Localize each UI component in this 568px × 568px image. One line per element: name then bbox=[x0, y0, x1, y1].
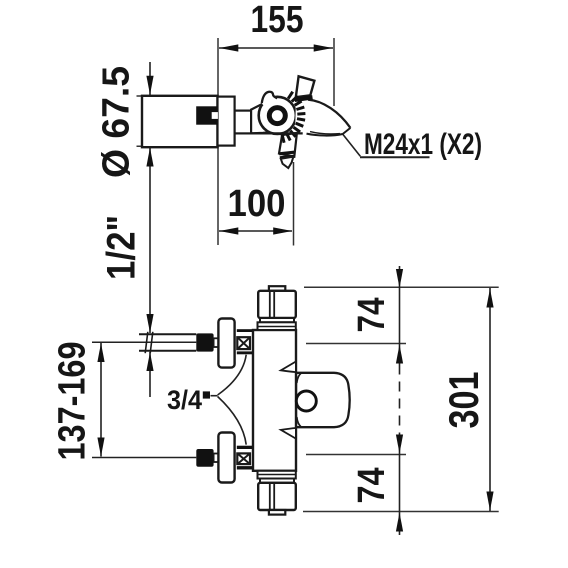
label 3/4 leader tick bbox=[211, 395, 218, 397]
upper inlet pipe bbox=[139, 333, 196, 335]
dimension 137-169 line bbox=[100, 343, 102, 457]
knurl collar ticks bbox=[282, 92, 305, 143]
lower inlet nut bbox=[196, 449, 213, 467]
upper union top bar bbox=[237, 329, 253, 332]
svg-text:Ø 67.5: Ø 67.5 bbox=[96, 66, 138, 178]
bottom knob skirt bbox=[258, 471, 296, 479]
spout top edge bbox=[308, 100, 350, 128]
upper stub base band bbox=[295, 97, 313, 100]
block ear top bbox=[281, 362, 296, 373]
hub top bump bbox=[262, 92, 277, 105]
right side extension lines bbox=[304, 286, 499, 288]
valve wedge bbox=[251, 100, 277, 134]
lower stub tube bbox=[279, 133, 297, 157]
spout block bbox=[296, 373, 350, 427]
spout inner line bbox=[310, 132, 340, 134]
svg-text:100: 100 bbox=[228, 183, 286, 225]
top knob skirt bbox=[260, 318, 294, 322]
dimension 74 (top) line bbox=[399, 266, 401, 365]
dimension 100 extension line right bbox=[293, 162, 295, 246]
dimension dia 67.5 / 1/2 inch vertical line bbox=[149, 62, 151, 333]
spout block inner arcs bbox=[297, 373, 301, 383]
label 3/4 leader curve lower bbox=[218, 397, 247, 445]
upper stub M24 outlet bbox=[296, 76, 315, 97]
dimension 100 line bbox=[219, 230, 292, 232]
top knob bump bbox=[269, 286, 285, 291]
lower stub knurl band bbox=[279, 152, 294, 154]
dimension dia 67.5 extension ticks bbox=[137, 95, 219, 97]
label M24x1 underline bbox=[360, 156, 430, 158]
svg-text:74: 74 bbox=[351, 468, 393, 504]
lower inlet center line / 137-169 bottom extension bbox=[92, 457, 196, 459]
top knob bbox=[258, 291, 296, 318]
lower union top bar bbox=[237, 446, 253, 449]
escutcheon flange rect A bbox=[142, 96, 218, 147]
lower union bottom bar bbox=[237, 466, 253, 469]
dimension 74 (bottom) line bbox=[399, 434, 401, 536]
neck rect bbox=[235, 111, 252, 134]
upper union bottom bar bbox=[237, 351, 253, 354]
mounting screw dark square bbox=[196, 106, 217, 124]
upper inlet stub bbox=[214, 338, 219, 347]
dimension 155 extension line right bbox=[333, 38, 335, 106]
bottom knob bump bbox=[269, 510, 285, 515]
lower union crossed box bbox=[237, 453, 250, 464]
svg-text:74: 74 bbox=[351, 298, 393, 333]
outlet circle bbox=[296, 391, 316, 411]
spout bottom edge bbox=[307, 128, 351, 136]
svg-text:301: 301 bbox=[440, 372, 487, 429]
lower inlet flange bbox=[218, 433, 234, 483]
upper inlet nut bbox=[196, 333, 213, 351]
dimension 301 line bbox=[489, 288, 491, 511]
svg-text:3/4: 3/4 bbox=[167, 385, 202, 415]
body tube bbox=[253, 330, 296, 471]
hub outer circle bbox=[259, 97, 296, 134]
svg-text:137-169: 137-169 bbox=[52, 342, 94, 461]
lower stub end piece bbox=[281, 157, 294, 168]
dimension 155 extension line left bbox=[217, 38, 219, 245]
block ear bottom bbox=[281, 428, 296, 439]
dimension 155 line bbox=[219, 47, 333, 49]
hub inner ring bbox=[269, 108, 285, 124]
upper inlet flange bbox=[218, 319, 234, 368]
dimension 74 middle dashed line bbox=[399, 365, 401, 434]
under-hub silhouette line bbox=[251, 132, 303, 134]
label 3/4 leader curve upper bbox=[218, 355, 247, 395]
upper inlet center line / 137-169 top extension bbox=[92, 341, 196, 343]
bottom knob bbox=[258, 483, 296, 510]
lower inlet stub bbox=[214, 454, 219, 463]
escutcheon body rect B bbox=[218, 97, 235, 146]
svg-text:1/2": 1/2" bbox=[100, 215, 144, 280]
svg-text:155: 155 bbox=[251, 0, 304, 41]
upper union crossed box bbox=[237, 337, 250, 349]
spout fill bbox=[295, 100, 350, 136]
label M24x1 leader bbox=[343, 134, 361, 156]
label 3/4 square inch mark bbox=[203, 391, 210, 398]
pipe break ticks bbox=[145, 332, 148, 353]
